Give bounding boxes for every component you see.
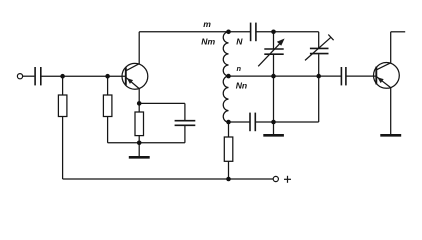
svg-text:N: N xyxy=(236,36,243,46)
svg-text:Nn: Nn xyxy=(236,81,247,91)
svg-text:Nm: Nm xyxy=(201,37,215,47)
svg-text:m: m xyxy=(203,19,211,29)
svg-text:n: n xyxy=(237,64,242,73)
